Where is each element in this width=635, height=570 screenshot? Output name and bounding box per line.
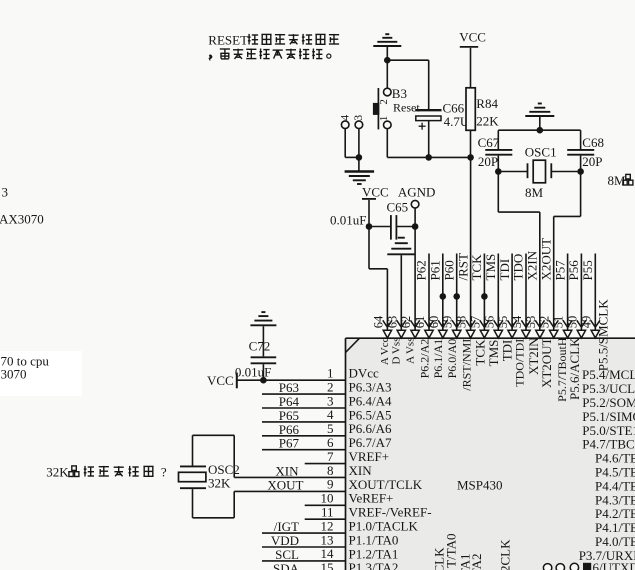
pin number 10 bbox=[321, 491, 334, 506]
pin arrow 58 bbox=[466, 320, 475, 338]
resistor R84 label bbox=[476, 96, 498, 111]
wire left pin5 bbox=[262, 435, 346, 437]
wire node to switch pin2 bbox=[386, 60, 388, 88]
wire stub net P60 bbox=[456, 254, 458, 331]
switch B3 pin number 1 bbox=[378, 116, 390, 122]
wire pin3 down bbox=[358, 129, 360, 158]
switch B3 pin number 2 bbox=[378, 99, 390, 105]
wire OSC2 right bottom to XOUT bbox=[233, 491, 235, 517]
svg-text:P4.4/TB4: P4.4/TB4 bbox=[595, 478, 635, 493]
pin arrow 59 bbox=[452, 320, 461, 338]
pin name P6.2/A2 rotated bbox=[418, 339, 432, 379]
pin number 57 rotated bbox=[468, 316, 482, 329]
wire reset bottom rail bbox=[387, 156, 470, 158]
node osc top junction bbox=[537, 127, 544, 134]
wire left pin10 bbox=[305, 504, 346, 506]
switch B3 pin1 circle bbox=[384, 121, 392, 129]
note text 32K crystal question bbox=[46, 464, 167, 479]
svg-text:32K: 32K bbox=[46, 464, 69, 479]
svg-text:32K: 32K bbox=[208, 476, 231, 491]
svg-text:P4.3/TB3: P4.3/TB3 bbox=[595, 492, 635, 507]
wire left pin7 bbox=[305, 463, 346, 465]
svg-text:P5.1/SIMO1: P5.1/SIMO1 bbox=[582, 409, 635, 424]
pin number 54 rotated bbox=[510, 315, 524, 328]
pin name XT2IN rotated bbox=[526, 337, 541, 375]
wire AGND down AVss bbox=[414, 208, 416, 330]
crystal OSC2 label bbox=[208, 462, 240, 477]
capacitor C66 value 4.7U bbox=[444, 114, 470, 129]
pin name P5.0/STE1 right bbox=[582, 423, 635, 438]
net label X2OUT rotated bbox=[538, 238, 553, 281]
svg-text:P67: P67 bbox=[279, 436, 300, 451]
svg-text:P1.2/TA1: P1.2/TA1 bbox=[349, 546, 399, 561]
svg-text:XOUT: XOUT bbox=[267, 477, 303, 492]
svg-text:Reset: Reset bbox=[393, 101, 420, 115]
ground GND1 stack top bbox=[373, 34, 401, 46]
svg-text:/IGT: /IGT bbox=[274, 519, 299, 534]
net label P60 rotated bbox=[441, 260, 456, 280]
svg-text:P65: P65 bbox=[279, 408, 299, 423]
svg-text:P60: P60 bbox=[441, 260, 456, 280]
pin circle bottom 3 bbox=[570, 563, 578, 570]
wire VCC mid down bbox=[368, 200, 370, 227]
svg-text:11: 11 bbox=[321, 505, 334, 520]
svg-text:8M: 8M bbox=[525, 185, 544, 200]
pin name P4.0/TB0 right bbox=[595, 534, 635, 549]
pin arrow 49 bbox=[591, 320, 600, 338]
capacitor C72 label bbox=[249, 339, 271, 354]
wire net /RST down to pin58 bbox=[470, 157, 472, 330]
svg-text:12CLK: 12CLK bbox=[498, 539, 513, 570]
capacitor C72 value 0.01uF bbox=[235, 364, 271, 379]
svg-text:0.01uF: 0.01uF bbox=[330, 212, 366, 227]
pin name XT2OUT rotated bbox=[539, 337, 554, 388]
net label TDO rotated bbox=[511, 254, 526, 281]
svg-text:XIN: XIN bbox=[275, 463, 299, 478]
svg-text:C72: C72 bbox=[249, 339, 271, 354]
svg-text:P4.2/TB2: P4.2/TB2 bbox=[595, 506, 635, 521]
pin number 6 bbox=[327, 435, 334, 450]
svg-text:OSC1: OSC1 bbox=[525, 144, 557, 159]
svg-text:VCC: VCC bbox=[207, 373, 234, 388]
crystal OSC2 loop bottom bbox=[193, 489, 235, 518]
pin name P6.4/A4 bbox=[349, 393, 392, 408]
wire XOUT pin9 bbox=[234, 490, 345, 492]
node C66 bottom junction bbox=[425, 154, 432, 161]
connector pin3 number bbox=[353, 115, 365, 121]
wire stub net TCK bbox=[483, 254, 485, 331]
wire stub net TMS bbox=[497, 254, 499, 331]
svg-text:14: 14 bbox=[321, 546, 335, 561]
ground GND5 stack C72 bbox=[250, 312, 276, 325]
svg-text:X2OUT: X2OUT bbox=[538, 238, 553, 281]
node stub junction TCK bbox=[481, 293, 488, 300]
svg-text:P57: P57 bbox=[552, 260, 567, 281]
svg-text:VeREF+: VeREF+ bbox=[349, 491, 394, 506]
wire left pin11 bbox=[305, 518, 346, 520]
pin name P5.7/TBoutH rotated bbox=[555, 337, 569, 402]
connector pin3 circle bbox=[355, 121, 363, 129]
pin number 1 bbox=[327, 366, 334, 381]
crystal OSC1 label bbox=[525, 144, 557, 159]
svg-text:P6.7/A7: P6.7/A7 bbox=[349, 435, 392, 450]
svg-text:P4.7/TBCLK: P4.7/TBCLK bbox=[582, 437, 635, 452]
svg-text:TDO/TDI: TDO/TDI bbox=[512, 339, 526, 387]
svg-text:TMS: TMS bbox=[483, 254, 498, 281]
cropped net text 70 to cpu bbox=[1, 353, 50, 368]
net label /IGT bbox=[274, 519, 299, 534]
svg-text:P6.4/A4: P6.4/A4 bbox=[349, 393, 392, 408]
wire C66 bottom bbox=[428, 121, 430, 158]
node C65 right junction bbox=[412, 223, 419, 230]
wire crystal right bbox=[551, 171, 580, 173]
note text line2 need reselect button bbox=[209, 49, 331, 61]
pin name P5.1/SIMO1 right bbox=[582, 409, 635, 424]
node reset-top junction bbox=[384, 57, 391, 64]
pin number 9 bbox=[327, 477, 334, 492]
pin number 64 rotated bbox=[371, 315, 385, 328]
pin number 56 rotated bbox=[482, 316, 496, 329]
svg-text:9: 9 bbox=[327, 477, 334, 492]
pin name /RST/NMI rotated bbox=[459, 339, 473, 391]
pin number 50 rotated bbox=[565, 316, 579, 329]
net label P63 bbox=[279, 380, 299, 395]
wire osc left bottom to X2IN bbox=[498, 212, 540, 330]
node crystal right junction bbox=[577, 168, 584, 175]
net label P61 rotated bbox=[428, 260, 443, 280]
pin name P5.5/SMCLK rotated bbox=[596, 299, 611, 371]
net label P62 rotated bbox=[414, 260, 429, 280]
svg-text:XIN: XIN bbox=[349, 463, 373, 478]
net label P57 rotated bbox=[552, 260, 567, 281]
wire pin1 DVcc bbox=[237, 379, 346, 381]
net label XOUT bbox=[267, 477, 303, 492]
cropped net text 3 bbox=[2, 184, 9, 199]
net label X2IN rotated bbox=[525, 250, 540, 280]
pin name P1.2/TA1 bbox=[349, 546, 399, 561]
svg-text:P6.5/A5: P6.5/A5 bbox=[349, 407, 392, 422]
pin arrow 52 bbox=[549, 320, 558, 338]
svg-text:VCC: VCC bbox=[459, 29, 486, 44]
wire VCC mid route to pin64 bbox=[369, 227, 387, 331]
pin arrow 64 bbox=[383, 320, 392, 338]
svg-text:10: 10 bbox=[321, 491, 334, 506]
power AGND label bbox=[398, 185, 436, 200]
wire left pin6 bbox=[262, 449, 346, 451]
net label P64 bbox=[279, 394, 300, 409]
MCU name label MSP430 bbox=[457, 478, 503, 493]
svg-text:A Vcc: A Vcc bbox=[379, 337, 391, 365]
wire left pin2 bbox=[262, 393, 346, 395]
wire left pin4 bbox=[262, 421, 346, 423]
crystal OSC1 right plate bbox=[550, 163, 552, 178]
pin arrow 56 bbox=[494, 320, 503, 338]
note text 8M crystal right edge bbox=[608, 173, 635, 188]
pin arrow 63 bbox=[397, 320, 406, 338]
net label P55 rotated bbox=[580, 260, 595, 280]
pin number 7 bbox=[327, 449, 334, 464]
svg-text:T/TA0: T/TA0 bbox=[444, 534, 459, 568]
net label VDD bbox=[271, 533, 299, 548]
node stub junction P60 bbox=[453, 293, 460, 300]
power AGND circle bbox=[411, 200, 419, 208]
svg-text:AX3070: AX3070 bbox=[0, 211, 44, 226]
pin name P6.7/A7 bbox=[349, 435, 392, 450]
wire XIN pin8 bbox=[234, 476, 345, 478]
pin number 61 rotated bbox=[413, 316, 427, 329]
switch B3 name Reset bbox=[393, 101, 420, 115]
wire stub net P55 bbox=[594, 254, 596, 331]
pin name P6.5/A5 bbox=[349, 407, 392, 422]
capacitor C68 value 20P bbox=[582, 154, 602, 169]
pin name D Vss rotated bbox=[391, 338, 403, 365]
wire ground to node bbox=[386, 47, 388, 60]
capacitor C67 label bbox=[478, 135, 500, 150]
pin name XOUT/TCLK bbox=[349, 477, 423, 492]
pin circle bottom 1 bbox=[543, 564, 551, 570]
net label SCL bbox=[275, 547, 299, 562]
svg-text:P5.6/ACLK: P5.6/ACLK bbox=[567, 337, 582, 400]
pin name P5.3/UCLK1 right bbox=[582, 381, 635, 396]
pin number 60 rotated bbox=[427, 316, 441, 329]
resistor R84 bbox=[466, 88, 475, 131]
svg-text:7: 7 bbox=[327, 449, 334, 464]
svg-text:SCL: SCL bbox=[275, 547, 299, 562]
crystal OSC1 body bbox=[533, 160, 545, 183]
svg-text:P4.1/TB1: P4.1/TB1 bbox=[595, 520, 635, 535]
pin name P5.2/SOMI1 right bbox=[582, 395, 635, 410]
svg-text:3: 3 bbox=[327, 393, 334, 408]
svg-text:P63: P63 bbox=[279, 380, 299, 395]
pin name fragment TA1 rotated bottom bbox=[458, 554, 473, 570]
pin arrow 61 bbox=[424, 320, 433, 338]
pin number 8 bbox=[327, 463, 334, 478]
node C72 pin1 junction bbox=[260, 377, 267, 384]
pin name P1.0/TACLK bbox=[349, 519, 419, 534]
svg-text:X2IN: X2IN bbox=[525, 250, 540, 280]
svg-text:P1.0/TACLK: P1.0/TACLK bbox=[349, 519, 419, 534]
pin arrow 57 bbox=[480, 320, 489, 338]
svg-text:TDO: TDO bbox=[511, 254, 526, 281]
pin name fragment T/TA0 rotated bottom bbox=[444, 534, 459, 568]
pin name P6.1/A1 rotated bbox=[431, 339, 445, 379]
pin number 52 rotated bbox=[538, 316, 552, 329]
svg-text:22K: 22K bbox=[476, 113, 499, 128]
svg-text:XOUT/TCLK: XOUT/TCLK bbox=[349, 477, 423, 492]
pin number 14 bbox=[321, 546, 335, 561]
svg-text:6: 6 bbox=[327, 435, 334, 450]
wire left pin3 bbox=[262, 407, 346, 409]
pin name DVcc bbox=[349, 366, 380, 381]
pin number 12 bbox=[321, 518, 334, 533]
svg-text:P4.0/TB0: P4.0/TB0 bbox=[595, 534, 635, 549]
wire C68 bottom right side bbox=[580, 156, 582, 217]
pin name fragment TA2 rotated bottom bbox=[469, 554, 484, 570]
pin number 58 rotated bbox=[455, 316, 469, 329]
power VCC pin1 label bbox=[207, 373, 234, 388]
crystal OSC2 loop top bbox=[193, 435, 235, 465]
pin name P4.2/TB2 right bbox=[595, 506, 635, 521]
pin name VeREF+ bbox=[349, 491, 394, 506]
node crystal left junction bbox=[495, 168, 502, 175]
svg-text:P1.3/TA2: P1.3/TA2 bbox=[349, 560, 399, 570]
power VCC mid bar bbox=[362, 198, 376, 200]
net label TCK rotated bbox=[469, 254, 484, 281]
pin number 13 bbox=[321, 532, 334, 547]
svg-text:1: 1 bbox=[327, 366, 334, 381]
pin number 51 rotated bbox=[552, 316, 566, 329]
svg-text:VREF+: VREF+ bbox=[349, 449, 390, 464]
pin number 59 rotated bbox=[441, 316, 455, 329]
svg-text:P64: P64 bbox=[279, 394, 300, 409]
svg-text:A Vss: A Vss bbox=[405, 338, 417, 364]
svg-text:P56: P56 bbox=[566, 260, 581, 281]
pin number 3 bbox=[327, 393, 334, 408]
pin name P4.3/TB3 right bbox=[595, 492, 635, 507]
capacitor C65 value 0.01uF bbox=[330, 212, 366, 227]
pin name P4.7/TBCLK right bbox=[582, 437, 635, 452]
svg-text:3: 3 bbox=[2, 184, 9, 199]
wire osc top rail bbox=[498, 129, 580, 131]
pin name P4.4/TB4 right bbox=[595, 478, 635, 493]
pin number 53 rotated bbox=[524, 316, 538, 329]
pin name fragment TACLK rotated bottom bbox=[432, 547, 447, 570]
crystal OSC1 value 8M bbox=[525, 185, 544, 200]
wire C65 left bbox=[369, 226, 390, 228]
pin number 49 rotated bbox=[579, 316, 593, 329]
cropped net text AX3070 bbox=[0, 211, 44, 226]
power VCC top label bbox=[459, 29, 486, 44]
wire C67 bottom to corner bbox=[497, 156, 499, 213]
svg-text:P61: P61 bbox=[428, 260, 443, 280]
pin arrow 51 bbox=[563, 320, 572, 338]
wire C67 top bbox=[497, 130, 499, 149]
pin number 62 rotated bbox=[399, 316, 413, 329]
pin name VREF+ bbox=[349, 449, 390, 464]
wire ground to C72 bbox=[262, 326, 264, 356]
svg-text:P5.2/SOMI1: P5.2/SOMI1 bbox=[582, 395, 635, 410]
net label TMS rotated bbox=[483, 254, 498, 281]
pin name P6.0/A0 rotated bbox=[445, 339, 459, 379]
svg-text:TCK: TCK bbox=[469, 254, 484, 281]
switch B3 label bbox=[392, 86, 407, 101]
svg-text:MSP430: MSP430 bbox=[457, 478, 503, 493]
wire C72 bottom bbox=[262, 364, 264, 380]
pin number 63 rotated bbox=[385, 316, 399, 329]
svg-text:P6.1/A1: P6.1/A1 bbox=[431, 339, 445, 379]
svg-text:13: 13 bbox=[321, 532, 334, 547]
cropped net text 3070 bbox=[1, 366, 27, 381]
ground GND3 stack osc1 bbox=[525, 104, 554, 117]
pin name P6.6/A6 bbox=[349, 421, 392, 436]
pin arrow 62 bbox=[411, 320, 420, 338]
wire stub net TDI bbox=[511, 254, 513, 331]
wire stub net P56 bbox=[580, 254, 582, 331]
node stub junction P61 bbox=[440, 293, 447, 300]
svg-text:4: 4 bbox=[327, 407, 334, 422]
svg-text:/RST: /RST bbox=[455, 253, 470, 281]
svg-text:TDI: TDI bbox=[497, 259, 512, 281]
capacitor C68 label bbox=[582, 135, 604, 150]
svg-text:RESET: RESET bbox=[208, 32, 248, 47]
pin name P4.5/TB5 right bbox=[595, 465, 635, 480]
pin name fragment 12CLK rotated bottom bbox=[498, 539, 513, 570]
svg-text:2: 2 bbox=[378, 99, 390, 105]
wire osc right bottom to X2OUT bbox=[554, 216, 581, 330]
note text line1 RESET key annotation bbox=[208, 32, 339, 47]
svg-text:C65: C65 bbox=[387, 199, 409, 214]
svg-text:P5.4/MCLK: P5.4/MCLK bbox=[582, 367, 635, 382]
capacitor C65 label bbox=[387, 199, 409, 214]
svg-text:P6.0/A0: P6.0/A0 bbox=[445, 339, 459, 379]
pin name P3.7/URXD1 right bbox=[579, 548, 635, 563]
capacitor C72 bbox=[251, 357, 277, 363]
svg-text:12: 12 bbox=[321, 518, 334, 533]
pin name TDO/TDI rotated bbox=[512, 339, 526, 387]
pin arrow 60 bbox=[438, 320, 447, 338]
svg-text:C68: C68 bbox=[582, 135, 604, 150]
svg-text:P6.6/A6: P6.6/A6 bbox=[349, 421, 392, 436]
wire R84 bottom to node bbox=[470, 130, 472, 157]
svg-text:AGND: AGND bbox=[398, 185, 436, 200]
wire stub net P62 bbox=[428, 254, 430, 331]
svg-text:D Vss: D Vss bbox=[391, 338, 403, 365]
MCU U? MSP430 body bbox=[346, 338, 635, 570]
power VCC top bar bbox=[460, 46, 478, 48]
wire left pin12 bbox=[262, 532, 346, 534]
switch B3 pin2 circle bbox=[384, 88, 392, 96]
pin arrow 55 bbox=[508, 320, 517, 338]
svg-text:XT2OUT: XT2OUT bbox=[539, 337, 554, 388]
svg-text:P4.6/TB6: P4.6/TB6 bbox=[595, 451, 635, 466]
pin number 5 bbox=[327, 421, 334, 436]
capacitor C68 bbox=[567, 150, 594, 155]
pin name P4.6/TB6 right bbox=[595, 451, 635, 466]
svg-text:VDD: VDD bbox=[271, 533, 299, 548]
node C65 left junction bbox=[366, 223, 373, 230]
svg-text:TA2: TA2 bbox=[469, 554, 484, 570]
svg-text:C67: C67 bbox=[478, 135, 500, 150]
ground GND2 earth bbox=[345, 172, 375, 185]
capacitor C67 value 20P bbox=[478, 154, 498, 169]
net label P66 bbox=[279, 422, 300, 437]
svg-text:P62: P62 bbox=[414, 260, 429, 280]
svg-text:4: 4 bbox=[339, 115, 351, 121]
net label P65 bbox=[279, 408, 299, 423]
net label P67 bbox=[279, 436, 300, 451]
capacitor C66 label bbox=[443, 100, 465, 115]
resistor R84 value 22K bbox=[476, 113, 499, 128]
pin number 4 bbox=[327, 407, 334, 422]
pin name TDI rotated bbox=[500, 340, 515, 362]
pin number 11 bbox=[321, 505, 334, 520]
crystal OSC2 bottom plate bbox=[180, 487, 206, 489]
svg-text:C66: C66 bbox=[443, 100, 465, 115]
svg-text:DVcc: DVcc bbox=[349, 366, 380, 381]
svg-text:3: 3 bbox=[353, 115, 365, 121]
svg-text:B3: B3 bbox=[392, 86, 407, 101]
pin name P5.4/MCLK right bbox=[582, 367, 635, 382]
wire DVss ground to pin63 bbox=[400, 255, 402, 330]
wire node to C66 branch bbox=[387, 60, 428, 110]
net label /RST rotated bbox=[455, 253, 470, 281]
pin name A Vss rotated bbox=[405, 338, 417, 364]
pin number 2 bbox=[327, 379, 334, 394]
svg-text:2: 2 bbox=[327, 379, 334, 394]
wire C68 top bbox=[580, 130, 582, 149]
svg-text:P55: P55 bbox=[580, 260, 595, 280]
pin name P4.1/TB1 right bbox=[595, 520, 635, 535]
